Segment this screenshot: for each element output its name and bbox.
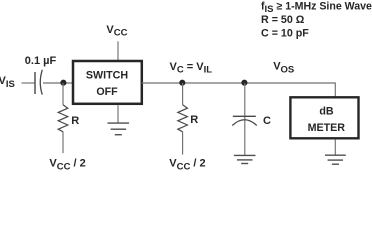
capacitor C top plate: [233, 115, 256, 117]
wire capacitor C1 to switch box: [43, 82, 73, 84]
ground under switch box: [108, 123, 130, 135]
wire node to resistor R1: [62, 83, 64, 105]
node at capacitor C: [241, 80, 247, 86]
wire dB meter to ground: [334, 139, 336, 154]
wire switch box to ground: [117, 105, 119, 123]
svg-text:C = 10 pF: C = 10 pF: [261, 27, 309, 39]
dB meter box: [290, 97, 358, 138]
power VCC lead: [117, 41, 119, 61]
svg-text:R: R: [71, 115, 79, 127]
ground under capacitor C: [234, 155, 256, 163]
wire node to capacitor C and ground: [244, 83, 246, 155]
wire node to resistor R2: [182, 83, 184, 105]
svg-text:OFF: OFF: [96, 86, 118, 98]
svg-text:R = 50 Ω: R = 50 Ω: [261, 14, 305, 26]
wire resistor R2 to VCC/2: [182, 132, 184, 155]
svg-text:R: R: [190, 114, 198, 126]
node VC = VIL: [179, 80, 185, 86]
svg-text:SWITCH: SWITCH: [86, 70, 128, 82]
capacitor C1 0.1uF curved plate: [40, 70, 42, 95]
switch box U1: [73, 61, 142, 104]
wire resistor R1 to VCC/2: [62, 132, 64, 154]
resistor R1: [58, 105, 68, 132]
svg-text:C: C: [263, 115, 271, 127]
resistor R2: [178, 105, 188, 132]
svg-text:dB: dB: [319, 106, 334, 118]
wire down into dB meter: [334, 83, 336, 98]
capacitor C1 0.1uF left plate: [34, 72, 36, 94]
capacitor C curved plate: [232, 120, 256, 126]
ground under dB meter: [325, 155, 346, 164]
wire VIS to capacitor C1: [22, 82, 35, 84]
svg-text:METER: METER: [308, 122, 346, 134]
svg-text:0.1 µF: 0.1 µF: [25, 55, 57, 67]
wire switch box to VC node, C node and dB meter: [142, 82, 335, 84]
node junction at R divider input: [60, 80, 66, 86]
